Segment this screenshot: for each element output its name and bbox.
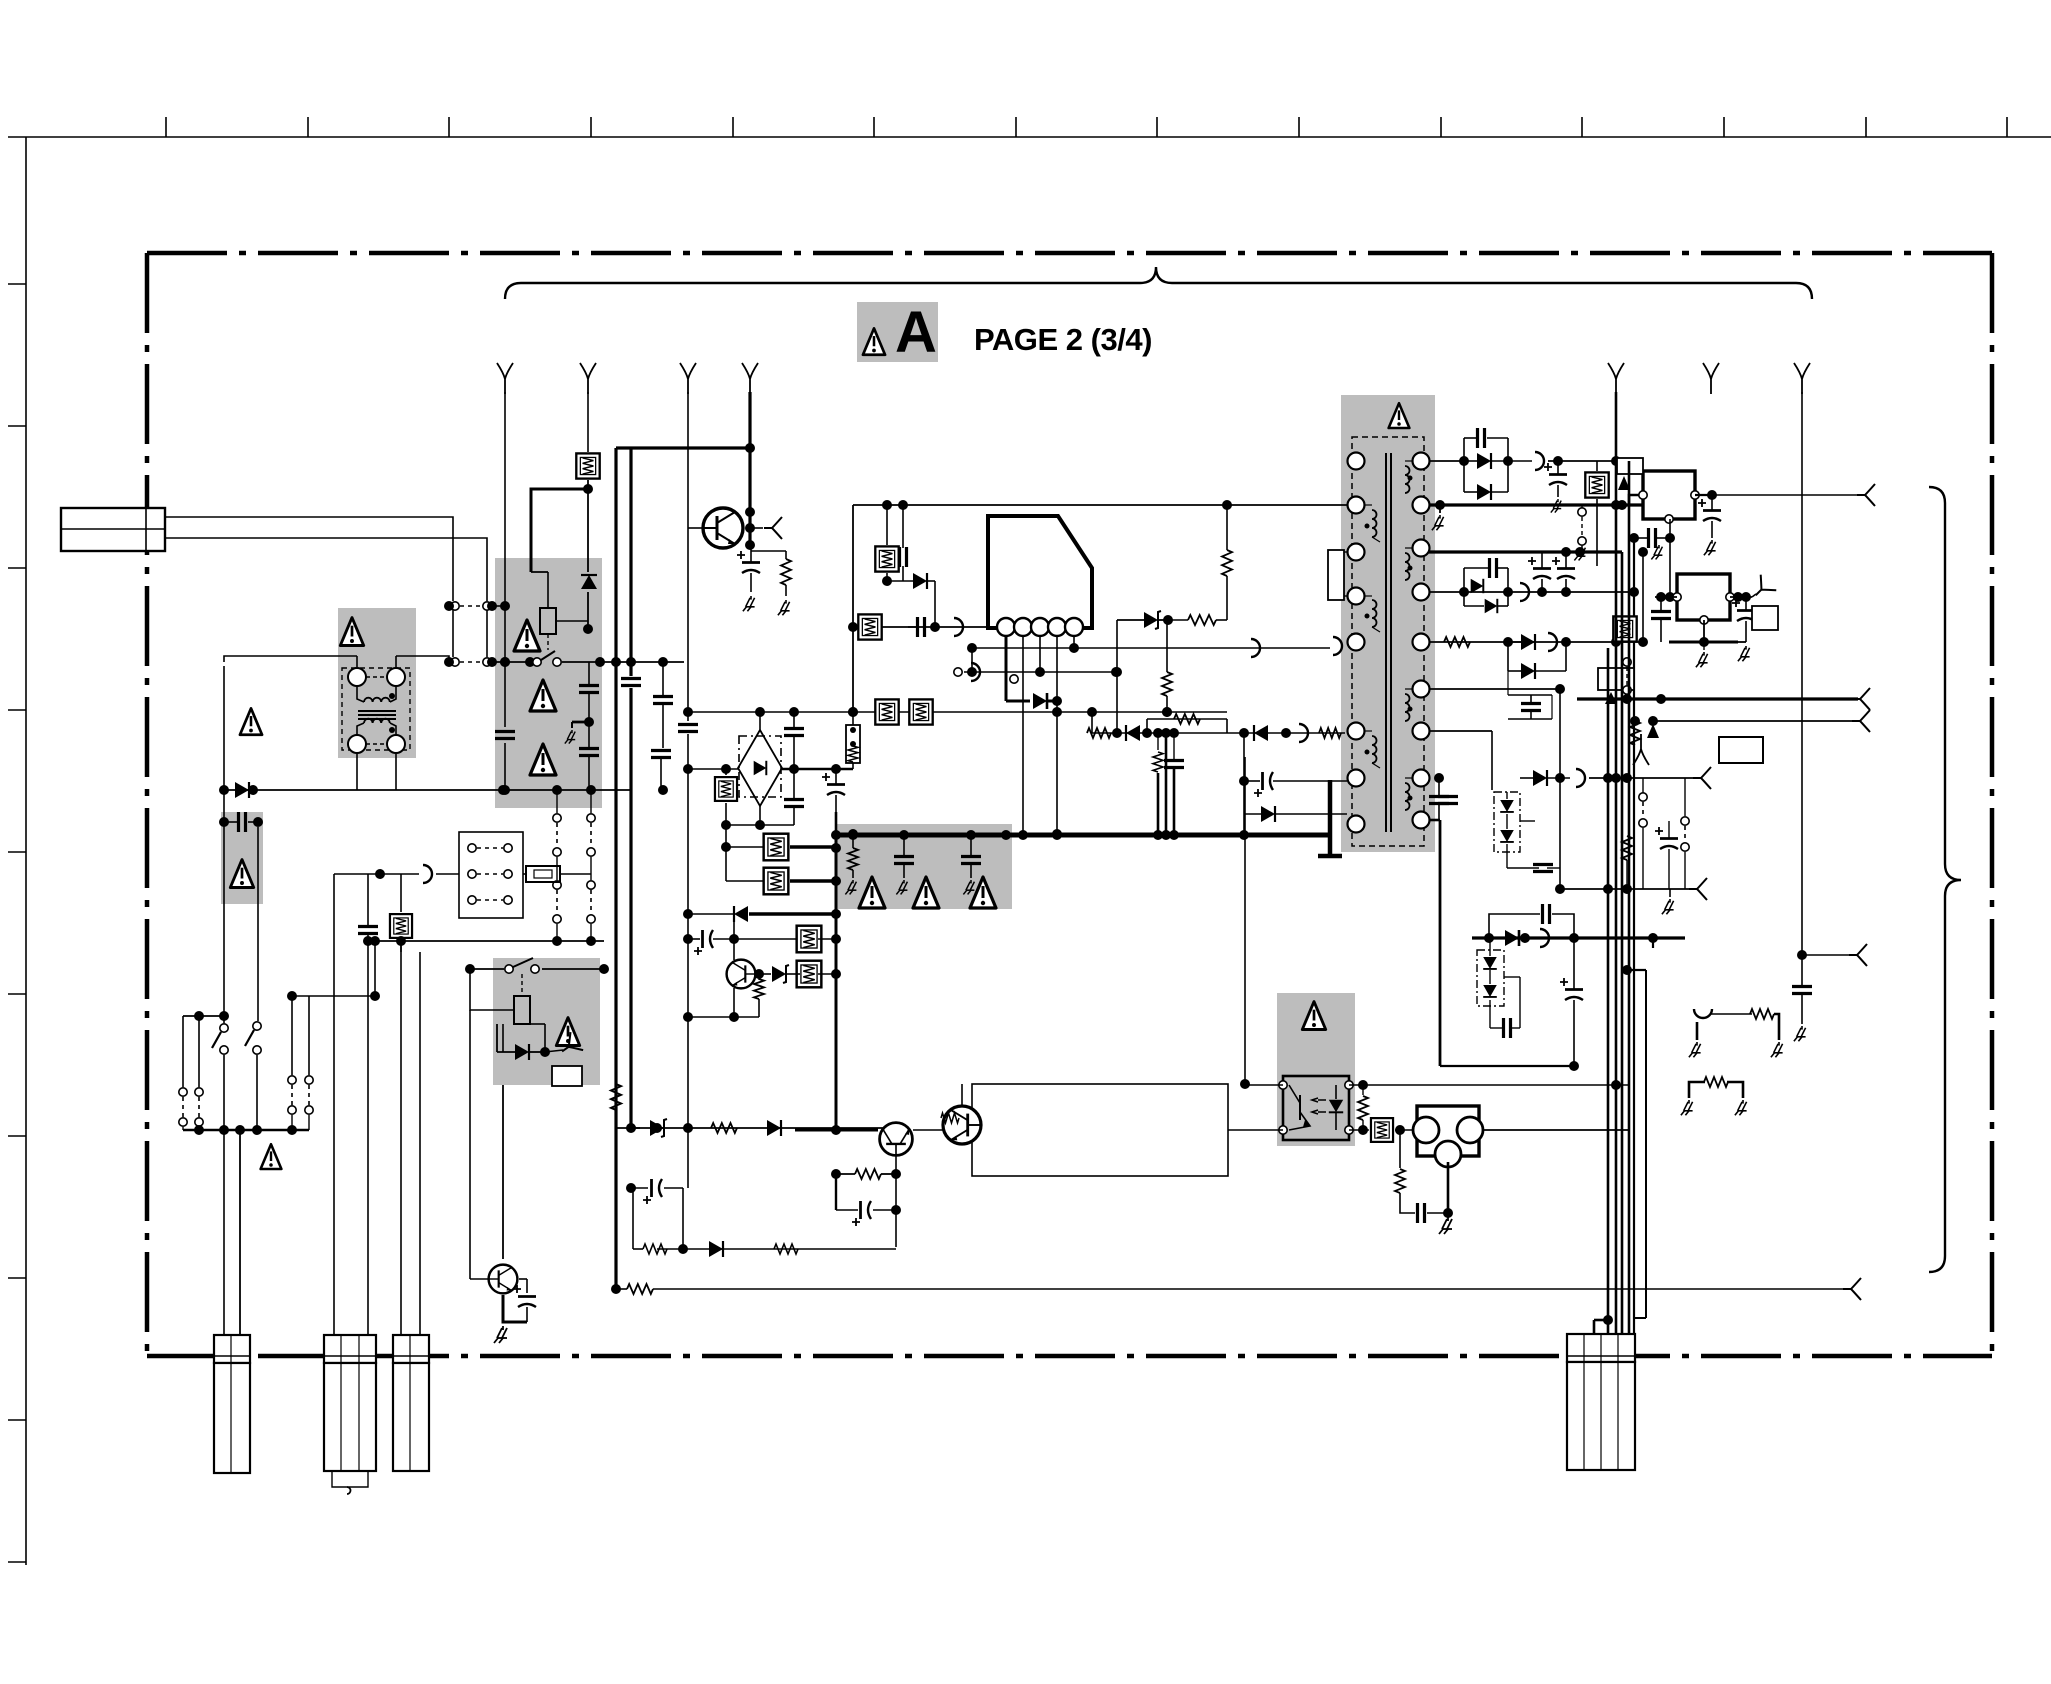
warning triangle X-cap [230, 860, 253, 888]
ruler tick left 8 [8, 1277, 26, 1279]
primary ground shaded area [836, 824, 1012, 909]
boxed resistor R92 [1613, 616, 1636, 641]
sense resistor R64 [846, 725, 860, 763]
diode D86 [1521, 663, 1535, 679]
T1 primary pin 6 [1348, 723, 1365, 740]
IC U1 pins [997, 618, 1015, 636]
warning triangle relay 2 [530, 680, 556, 711]
T1 primary pin 2 [1348, 497, 1365, 514]
drop 1116 [1116, 620, 1118, 672]
resistor R53 [1162, 672, 1172, 696]
top horizontal brace [505, 267, 1812, 299]
T1 secondary pin 5 [1413, 634, 1430, 651]
wire from CB101 bottom [165, 538, 487, 601]
pin5 wire [1073, 636, 1075, 648]
wire fb [964, 671, 1116, 673]
dual zener block 2 [1477, 950, 1504, 1006]
resistor R72 [1087, 728, 1111, 738]
transistor Q12 [880, 1123, 913, 1156]
diode D73 [1254, 725, 1268, 741]
ruler tick top 14 [2006, 117, 2008, 137]
cap C81 [1478, 428, 1485, 448]
cap C204 [653, 697, 673, 704]
wire to CN1 b [239, 1130, 241, 1337]
ruler tick left 7 [8, 1135, 26, 1137]
sec4 wire [1429, 591, 1634, 593]
ruler tick left 9 [8, 1419, 26, 1421]
bus vertical left a [614, 448, 617, 1289]
hv drop left [852, 505, 854, 627]
sec4 branch [1463, 568, 1465, 606]
bus out b thick [1577, 697, 1858, 700]
resistor R91 [1630, 721, 1640, 745]
wire from CB101 top [165, 517, 453, 601]
diode D93 [1505, 930, 1519, 946]
T1 secondary winding d [1405, 783, 1410, 810]
regulator IC U2 [1643, 471, 1695, 519]
Q12 wire thick [795, 1129, 878, 1132]
lower elbow wire [726, 824, 794, 826]
opto shaded area [1277, 993, 1355, 1146]
elbow right bundle [1652, 938, 1654, 948]
resistor R16 [855, 1169, 881, 1179]
sec8 wire [1429, 819, 1440, 822]
diode D85 [1521, 634, 1535, 650]
wire-end arrow relay2 [556, 1032, 583, 1060]
cap Cg2 [961, 857, 981, 864]
connector pair P2 [451, 658, 491, 666]
warning triangle switch block [261, 1144, 282, 1169]
ruler tick left 3 [8, 567, 26, 569]
warning triangle line filter [340, 618, 363, 646]
svg-text:PAGE 2 (3/4): PAGE 2 (3/4) [974, 322, 1154, 357]
transistor Q13 [943, 1106, 981, 1144]
R63 column [725, 803, 727, 881]
snubber column thick [835, 835, 838, 1130]
U3 in cap [1651, 612, 1671, 619]
bead L85 [1540, 929, 1549, 947]
T1 primary pin 1 [1348, 453, 1365, 470]
link chain s1 [1639, 793, 1647, 827]
resistor R82 [1444, 637, 1470, 647]
arrow drop wire 688 [687, 392, 689, 1188]
diode D84 [1485, 599, 1498, 613]
wire to CN3 a [400, 940, 402, 1337]
lower loop wire [657, 1248, 896, 1250]
T1 secondary winding b [1405, 553, 1410, 580]
switch block bottom wire [183, 1129, 309, 1132]
wire b2 [366, 940, 604, 942]
line filter winding bottom [357, 723, 364, 736]
wire 1802 drop [1801, 392, 1803, 955]
Q1 base wire [688, 527, 703, 529]
warning triangle g3 [970, 877, 996, 908]
sec6 wire [1429, 688, 1560, 690]
cap C88 [1438, 797, 1458, 804]
U2 out cap plus [1698, 499, 1721, 521]
T1 secondary pin 2 [1413, 497, 1430, 514]
thick drop to opto [1244, 757, 1246, 1084]
sec2 wire thick [1429, 503, 1643, 506]
page ruler left line [25, 137, 27, 1565]
relay RY202 coil [514, 996, 530, 1024]
wire w733 [1092, 732, 1345, 734]
bridge diode symbol [754, 761, 767, 775]
warning triangle left [240, 708, 262, 734]
T1 primary winding c [1372, 736, 1377, 763]
connector CN2 [324, 1335, 376, 1363]
shunt regulator U4 [1417, 1106, 1479, 1156]
ruler tick top 10 [1440, 117, 1442, 137]
page-link arrow top 1 [497, 363, 513, 394]
link chain d [587, 881, 595, 923]
connector CN4 [1567, 1334, 1635, 1362]
diode D82 [1477, 484, 1491, 500]
diode D41 [913, 573, 927, 589]
ruler tick top 2 [307, 117, 309, 137]
branch y914 [1489, 914, 1540, 938]
resistor R97 [1622, 836, 1632, 860]
wire hv top [853, 504, 1347, 506]
Q1 collector junction [745, 507, 755, 517]
U2 out wire [1695, 494, 1712, 496]
resistor R11 [627, 1284, 653, 1294]
cap C93 [1792, 987, 1812, 994]
warning triangle opto [1302, 1002, 1325, 1030]
link chain b [587, 814, 595, 856]
connector CN3 [393, 1335, 429, 1363]
pin2 wire [1022, 636, 1024, 834]
wire lower bus [688, 711, 1227, 713]
transistor Q11 [489, 1265, 518, 1294]
svg-text:A: A [895, 300, 937, 365]
U3 feed vertical [1642, 552, 1644, 642]
ruler tick top 8 [1156, 117, 1158, 137]
ruler tick top 9 [1298, 117, 1300, 137]
cap C62 [784, 800, 804, 807]
fuse F1 [526, 866, 560, 882]
resistor R1 [781, 559, 791, 585]
board outline top (dash-dot) [147, 251, 1992, 256]
boxed resistor R61 [875, 699, 898, 724]
line filter shaded area [338, 608, 416, 758]
Q13 details [941, 1113, 959, 1123]
label box U2 [1617, 458, 1643, 474]
resistor R73 [1319, 728, 1341, 738]
board outline right (dash-dot) [1990, 253, 1995, 1356]
IC U1 (controller) outline [988, 516, 1092, 628]
T1 secondary winding a [1405, 466, 1410, 493]
optocoupler PC1 box [1283, 1076, 1349, 1140]
boxed resistor R21 [390, 914, 412, 938]
T1 aux box [1328, 550, 1344, 600]
wire 1166 thick [1165, 733, 1168, 835]
ruler tick top 6 [873, 117, 875, 137]
T1 secondary pin 7 [1413, 723, 1430, 740]
PC1 led [1329, 1100, 1343, 1113]
ruler tick left 1 [8, 283, 26, 285]
ground hook [584, 717, 594, 727]
relay contact 2 [505, 958, 539, 973]
opto bottom wire [1228, 1129, 1283, 1131]
U3 out cap plus [1732, 599, 1755, 621]
U3 out wire [1730, 596, 1752, 598]
warning triangle T1 [1389, 403, 1410, 428]
dual zener block 1 [1494, 792, 1520, 852]
block label A (gray box) [857, 302, 938, 362]
warning triangle relay 1 [514, 620, 540, 651]
ruler tick top 3 [448, 117, 450, 137]
cap C63 plus [822, 773, 845, 795]
transformer T1 shaded area [1341, 395, 1435, 852]
feedback loop link [913, 1129, 944, 1131]
resistor R31 inline [611, 1084, 621, 1110]
cap C61 [784, 729, 804, 736]
page-link arrow top 3 [680, 363, 696, 394]
drop 1092 [1091, 712, 1093, 733]
cap C207 inline [679, 721, 697, 734]
resistor R14 [643, 1244, 667, 1254]
cap C86 [1521, 704, 1541, 711]
cap Cg1 [894, 857, 914, 864]
cap C11 plus [513, 1285, 536, 1307]
relay cap C203 [579, 749, 599, 756]
page-link arrow top 5 [1608, 363, 1624, 394]
connector CB101 (left edge box) [61, 508, 165, 551]
wire pair drop [452, 610, 454, 657]
sec2 gnd stub [1439, 505, 1441, 513]
T1 primary pin 3 [1348, 544, 1365, 561]
wire y1066 [1440, 1065, 1574, 1067]
power switch S1a [212, 1024, 228, 1054]
aux contact box [459, 832, 523, 918]
wire drive thick [1006, 700, 1030, 703]
Q1 arrow out [764, 517, 782, 539]
boxed resistor R62 [909, 699, 932, 724]
board outline left (dash-dot) [145, 253, 150, 1356]
ruler tick left 6 [8, 993, 26, 995]
sec7 wire [1429, 730, 1492, 732]
sec8 drop thick [1439, 820, 1442, 1066]
phase dots [389, 693, 395, 699]
bead L84 [1576, 769, 1585, 787]
link chain sec2 [1578, 508, 1586, 516]
arrow down into bus [1647, 724, 1659, 738]
U4 out wire [1482, 1129, 1629, 1131]
capacitor CX1 [239, 812, 246, 832]
zener ZD14 [772, 965, 789, 983]
page ruler top line [8, 136, 2051, 138]
warning triangle g1 [859, 877, 885, 908]
connector links S1 left [179, 1088, 187, 1126]
sec6 drop [1559, 689, 1561, 774]
T1 primary winding b [1372, 600, 1377, 627]
connector links S1 right [288, 1076, 296, 1114]
relay contact [533, 651, 561, 666]
aux chain wire [334, 873, 380, 875]
cap C1 plus [737, 551, 760, 573]
wire y937 thick [1472, 936, 1685, 939]
bus end T [1328, 780, 1333, 856]
bridge right wire [782, 768, 853, 771]
relay feed wire [531, 489, 588, 572]
cap C42 [918, 617, 925, 637]
drop 972 [971, 648, 973, 672]
wire AC live [224, 656, 357, 662]
transformer dashed outline [1352, 437, 1424, 846]
sec3 wire thick [1429, 550, 1622, 553]
connector pair P1 [451, 602, 491, 610]
switch block top wire [183, 1015, 224, 1017]
boxed resistor R201 [576, 453, 599, 478]
Q11 base wire [470, 1278, 489, 1280]
warning triangle g2 [913, 877, 939, 908]
ruler tick top 7 [1015, 117, 1017, 137]
diode D13 [709, 1241, 723, 1257]
sec7 drop [1491, 731, 1493, 790]
boxed resistor R41 [875, 546, 898, 571]
relay area 2 shaded [493, 958, 600, 1085]
diode D11 on neutral [235, 782, 249, 798]
relay out wire [600, 661, 684, 663]
page-link arrow top 7 [1794, 363, 1810, 394]
page-link arrow top 4 [742, 363, 758, 394]
link chain a [553, 814, 561, 856]
bundle v5 [1633, 538, 1635, 1334]
cap C21 [358, 927, 378, 934]
wire left fb [616, 1127, 640, 1129]
connector CN1 [214, 1335, 250, 1363]
T1 secondary winding c [1405, 694, 1410, 721]
cap C94 plus [1655, 827, 1678, 849]
CN4 top elbow [1594, 1319, 1608, 1322]
warning triangle in label box [863, 328, 885, 354]
warning triangle relay2 [556, 1018, 579, 1046]
boxed resistor R68 [797, 961, 822, 988]
boxed resistor R81 [1585, 472, 1608, 497]
loop wire w719 [1147, 718, 1227, 720]
cap C87 [1533, 865, 1553, 872]
label box r1 [1598, 668, 1634, 690]
ruler tick left 2 [8, 425, 26, 427]
T1 primary pin 8 [1348, 816, 1365, 833]
U2 long wire [1712, 494, 1863, 496]
diode D72 [1126, 725, 1140, 741]
drop 1057 low [1056, 712, 1058, 834]
Q12 base drop [895, 1156, 897, 1247]
warning triangle relay 3 [530, 744, 556, 775]
wire left drop b [257, 827, 259, 1014]
line filter winding top [357, 686, 364, 702]
wire AC neutral [224, 789, 631, 791]
relay RY201 coil [540, 608, 556, 634]
ruler tick left 10 [8, 1561, 26, 1563]
diode D75 [734, 906, 748, 922]
gnd stub y889 [1669, 889, 1671, 897]
U2 gnd cap [1649, 528, 1656, 548]
T1 secondary pin 1 [1413, 453, 1430, 470]
wire left drop a [223, 666, 225, 1014]
T1 primary winding a [1372, 510, 1377, 537]
pin3 wire [1039, 636, 1041, 672]
aux wire [436, 873, 459, 875]
board outline bottom (dash-dot) [147, 1354, 1992, 1359]
diode D12 [767, 1120, 781, 1136]
resistor R69 [754, 979, 764, 999]
bundle v3 [1621, 552, 1624, 1337]
cap C12 plus [852, 1201, 871, 1226]
arrow drop wire 750 thick [748, 392, 751, 546]
cap C41 [900, 547, 907, 567]
link chain c [553, 881, 561, 923]
Q11 emitter [503, 1295, 527, 1322]
bundle v1 [1607, 648, 1610, 1337]
ruler tick top 13 [1865, 117, 1867, 137]
wire to CN2 a [333, 952, 335, 1337]
sec1 wire [1429, 460, 1464, 462]
T1 secondary pin 3 [1413, 540, 1430, 557]
cap C71 [1164, 761, 1184, 768]
label box mid [1719, 737, 1763, 763]
power switch S1b [245, 1022, 261, 1054]
chain r1 [1623, 658, 1631, 666]
right vertical brace [1929, 487, 1961, 1272]
U3 label box [1752, 606, 1778, 630]
wire y889 [1560, 888, 1689, 890]
bus out c [1653, 720, 1858, 722]
U3 gnd bus [1669, 641, 1738, 644]
line filter core [358, 710, 396, 712]
cap C82 plus [1544, 463, 1567, 485]
resistor R51 [1188, 615, 1216, 625]
resistor loop 2 [1689, 1082, 1705, 1098]
wire 1643 drop [1642, 642, 1644, 647]
boxed resistor R66 [764, 868, 789, 895]
transformer core [1385, 453, 1387, 832]
boxed resistor R42 [858, 614, 881, 639]
T1 secondary pin 8 [1413, 770, 1430, 787]
cap C13 plus [643, 1179, 662, 1204]
cap C84 plus [1552, 557, 1575, 579]
wire to CN1 a [223, 1130, 225, 1337]
relay cap C202 [579, 686, 599, 693]
U2 feed elbow [1629, 495, 1639, 505]
long wire to right edge [684, 1288, 1849, 1290]
bridge diamond [738, 730, 782, 806]
T1 secondary pin 6 [1413, 681, 1430, 698]
bead-resistor loop [1696, 1022, 1699, 1040]
bridge rectifier DB1 frame [739, 736, 781, 797]
pin4 wire [1056, 636, 1058, 712]
cap C205 [651, 751, 671, 758]
wire into pin8 [1243, 814, 1245, 835]
ruler tick left 5 [8, 851, 26, 853]
pin1 wire thick [1005, 636, 1008, 701]
resistor Rg [848, 848, 858, 870]
opto top wire [1245, 1084, 1283, 1086]
resistor R15 [774, 1244, 798, 1254]
U2 to U3 vertical [1669, 538, 1671, 597]
ruler tick top 4 [590, 117, 592, 137]
bundle v2 [1615, 392, 1618, 1337]
primary bus thick [836, 833, 1330, 838]
drop 1116 b [1116, 672, 1118, 733]
wire to CN2 b [367, 952, 369, 1337]
PC1 phototransistor [1299, 1095, 1301, 1120]
bead L83 [1548, 633, 1557, 651]
T1 primary pin 4 [1348, 588, 1365, 605]
diode D74 [1261, 806, 1275, 822]
